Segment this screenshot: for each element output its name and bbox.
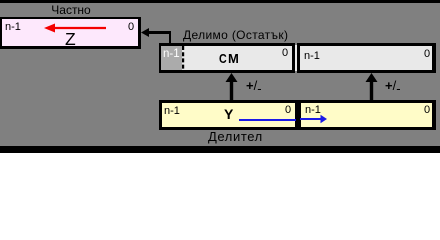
bit index 0 (register Z) bbox=[128, 22, 134, 33]
bit index 0 (register CM) bbox=[282, 48, 288, 59]
wire horizontal (CM n-1 to Z) bbox=[148, 31, 171, 34]
bit index 0 (Y extension) bbox=[424, 105, 430, 116]
arrowhead into register Z bbox=[141, 28, 149, 37]
label Y bbox=[224, 108, 233, 120]
shift-right arrow (Y extension) bbox=[300, 113, 328, 125]
bit index 0 (low part) bbox=[424, 49, 430, 60]
label Частно (quotient) bbox=[40, 4, 102, 16]
label Делител (divisor) bbox=[208, 131, 263, 142]
register Y extension (right) bbox=[298, 100, 436, 130]
bit index n-1 (Y extension) bbox=[305, 105, 321, 116]
label Z bbox=[65, 33, 76, 46]
bit index n-1 (register Z) bbox=[5, 22, 21, 33]
bottom border bar bbox=[0, 146, 440, 153]
label С М (adder) bbox=[219, 54, 227, 64]
bit index n-1 white (register CM) bbox=[163, 49, 180, 61]
bit index n-1 (low part) bbox=[304, 51, 320, 62]
bit index n-1 (register Y) bbox=[164, 106, 180, 117]
label +/- (left) bbox=[246, 80, 262, 92]
sign cell n-1 (register CM) bbox=[161, 46, 182, 70]
gap sliver between CM and low part bbox=[295, 45, 297, 71]
arrow +/- into CM (left) bbox=[225, 73, 238, 101]
arrow +/- into low part (right) bbox=[365, 73, 378, 101]
wire vertical (down to CM n-1 cell) bbox=[169, 31, 172, 45]
label +/- (right) bbox=[385, 80, 401, 92]
bit index 0 (register Y) bbox=[285, 105, 291, 116]
shift-left arrow (register Z) bbox=[43, 23, 107, 33]
register CM (adder register, high part) bbox=[159, 43, 295, 73]
shift-right line (register Y) bbox=[239, 119, 296, 121]
register Z (quotient register) bbox=[0, 17, 141, 49]
top border bar bbox=[0, 0, 440, 3]
register Y (divisor, left) bbox=[159, 100, 298, 130]
dashed separator (register CM) bbox=[182, 46, 185, 70]
label Делимо (Остатък) (dividend / remainder) bbox=[183, 29, 288, 41]
register remainder low part bbox=[297, 43, 436, 73]
